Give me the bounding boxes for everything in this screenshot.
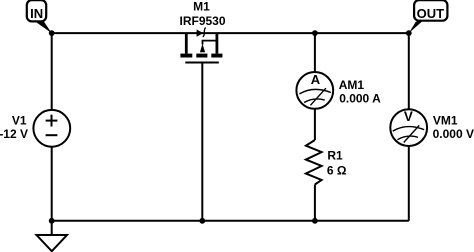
junction top rail to AM1 branch	[312, 30, 318, 36]
ground	[37, 235, 68, 251]
middle contact bar	[196, 54, 207, 58]
wire left vertical IN node to V1 top	[51, 33, 53, 110]
svg-text:IRF9530: IRF9530	[179, 14, 225, 28]
svg-text:V: V	[404, 109, 413, 124]
body arrow	[200, 44, 205, 53]
node OUT balloon	[409, 0, 448, 33]
junction ground rail gate	[199, 218, 205, 224]
svg-text:M1: M1	[193, 0, 210, 14]
right contact bar	[211, 54, 222, 58]
wire AM1 to R1	[314, 108, 316, 140]
junction node IN dot	[49, 30, 55, 36]
wire top rail IN to OUT	[52, 32, 409, 34]
svg-text:IN: IN	[30, 6, 43, 21]
wire top rail to AM1	[314, 33, 316, 72]
wire R1 to ground rail	[314, 185, 316, 221]
left contact bar	[180, 54, 192, 58]
wire V1 bottom to ground rail	[51, 146, 53, 221]
wire ground stub	[51, 221, 53, 235]
transistor M1 PMOS	[180, 28, 222, 221]
svg-text:AM1: AM1	[339, 78, 365, 92]
svg-text:V1: V1	[12, 114, 27, 128]
resistor R1	[306, 140, 322, 185]
wire VM1 to ground rail	[408, 146, 410, 221]
svg-text:-12 V: -12 V	[0, 127, 28, 141]
wire OUT node to VM1	[408, 33, 410, 110]
svg-text:R1: R1	[327, 148, 343, 162]
body lead to source	[203, 41, 217, 45]
right stub	[215, 33, 218, 54]
voltage source V1	[33, 110, 70, 147]
junction ground rail left	[49, 218, 55, 224]
svg-text:0.000 V: 0.000 V	[433, 127, 474, 141]
node IN balloon	[27, 0, 52, 33]
svg-text:VM1: VM1	[433, 114, 458, 128]
ammeter AM1	[296, 72, 333, 109]
svg-text:A: A	[311, 72, 321, 87]
gate plate	[185, 62, 219, 64]
left stub	[185, 33, 188, 54]
svg-text:0.000 A: 0.000 A	[339, 91, 381, 105]
gate lead wire	[201, 63, 203, 221]
source polarity arrow on lead	[197, 30, 204, 37]
wire bottom ground rail	[52, 220, 409, 222]
junction node OUT dot	[406, 30, 412, 36]
polarity squiggle	[203, 28, 206, 37]
junction ground rail R1 branch	[312, 218, 318, 224]
svg-text:OUT: OUT	[417, 6, 445, 21]
svg-text:6 Ω: 6 Ω	[327, 163, 347, 177]
voltmeter VM1	[390, 109, 427, 146]
